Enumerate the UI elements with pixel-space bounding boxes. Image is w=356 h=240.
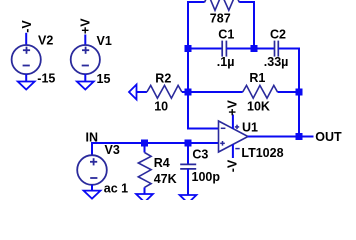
ground [180,195,197,203]
wire [187,143,189,164]
wire [84,35,86,46]
wire [25,74,27,81]
wire [137,91,147,93]
resistor R2 [147,85,182,98]
wire [84,74,86,81]
svg-text:10: 10 [154,100,168,114]
wire [91,185,93,191]
junction [296,133,303,140]
svg-text:U1: U1 [242,121,258,135]
resistor R4 [138,153,151,188]
wire [188,2,205,49]
inverting input mark [221,127,226,129]
wire [187,169,189,195]
wire (V- pin) [232,145,234,159]
ground (rotated, on R2 input) [129,85,137,100]
op-amp U1 [219,121,249,152]
svg-text:R4: R4 [154,156,170,170]
svg-text:C2: C2 [270,27,286,41]
svg-text:10K: 10K [247,100,270,114]
svg-text:C1: C1 [218,27,234,41]
node A wire to inverting input [188,49,219,129]
svg-text:100p: 100p [192,170,221,184]
ground [136,194,153,202]
voltage source V1 [71,45,100,74]
ground [18,82,35,90]
svg-text:OUT: OUT [315,130,342,144]
svg-text:C3: C3 [192,148,208,162]
svg-text:-V: -V [226,159,240,172]
svg-text:+V: +V [78,18,92,34]
junction [296,89,303,96]
svg-text:787: 787 [210,11,231,25]
svg-text:ac 1: ac 1 [104,181,128,195]
wire [25,33,27,45]
wire [188,48,222,50]
capacitor C1 [222,41,226,57]
svg-text:+V: +V [226,100,240,116]
junction [251,45,258,52]
wire [248,136,314,138]
svg-text:.1µ: .1µ [217,55,235,69]
svg-text:V1: V1 [97,34,112,48]
junction [185,140,192,147]
resistor R1 [243,85,278,98]
svg-text:R1: R1 [249,71,265,85]
positive supply pin mark [235,125,239,129]
svg-text:V2: V2 [38,33,53,47]
ground [77,82,94,90]
svg-text:LT1028: LT1028 [241,146,283,160]
svg-text:15: 15 [97,72,111,86]
svg-text:-15: -15 [37,71,55,85]
wire [278,91,300,93]
wire [144,143,146,153]
wire [144,187,146,194]
wire [92,143,219,155]
feedback resistor, value 787 [205,0,240,10]
wire [226,48,274,50]
capacitor C2 [275,41,279,57]
non-inverting input mark [220,141,225,146]
svg-text:.33µ: .33µ [264,55,289,69]
junction [185,45,192,52]
voltage source V3 [77,155,107,185]
voltage source V2 [12,45,41,74]
wire [182,91,243,93]
wire [239,2,254,49]
ground [84,191,101,199]
junction [141,140,148,147]
svg-text:R2: R2 [155,71,171,85]
capacitor C3 [180,164,196,169]
svg-text:-V: -V [20,20,34,33]
svg-text:47K: 47K [154,172,177,186]
junction [185,89,192,96]
wire (V+ pin) [232,115,234,129]
wire [278,49,299,137]
negative supply pin mark [235,148,239,150]
svg-text:V3: V3 [105,143,120,157]
